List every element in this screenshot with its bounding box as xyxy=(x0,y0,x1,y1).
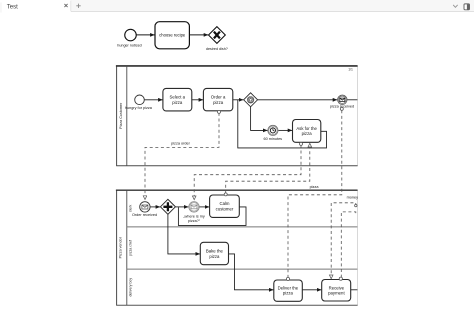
svg-text:pizza: pizza xyxy=(302,131,313,136)
svg-text:Calm: Calm xyxy=(219,201,229,206)
svg-text:Pizza Customer: Pizza Customer xyxy=(119,102,123,129)
svg-text:pizza: pizza xyxy=(172,100,183,105)
svg-text:Order received: Order received xyxy=(132,213,157,217)
svg-text:pizza: pizza xyxy=(213,100,224,105)
svg-text:choose recipe: choose recipe xyxy=(159,32,186,37)
svg-text:Test: Test xyxy=(7,5,18,11)
svg-text:hunger noticed: hunger noticed xyxy=(117,44,141,48)
svg-text:„where is my: „where is my xyxy=(183,215,205,219)
svg-text:pizza: pizza xyxy=(283,291,294,296)
svg-text:Ask for the: Ask for the xyxy=(296,126,317,131)
svg-text:customer: customer xyxy=(216,207,234,212)
svg-text:hungry for pizza: hungry for pizza xyxy=(125,106,153,110)
svg-text:Select a: Select a xyxy=(170,95,186,100)
svg-text:pizza?“: pizza?“ xyxy=(188,219,201,223)
svg-text:pizza: pizza xyxy=(209,254,220,259)
svg-text:pizza order: pizza order xyxy=(171,141,191,145)
svg-text:pizza chef: pizza chef xyxy=(128,240,132,256)
svg-text:payment: payment xyxy=(328,291,345,296)
svg-text:Order a: Order a xyxy=(211,95,226,100)
svg-text:delivery boy: delivery boy xyxy=(128,278,132,297)
svg-text:Pizza vendor: Pizza vendor xyxy=(119,236,123,258)
svg-text:Bake the: Bake the xyxy=(206,249,224,254)
svg-text:Deliver the: Deliver the xyxy=(278,285,299,290)
svg-text:desired dish?: desired dish? xyxy=(206,47,228,51)
svg-text:1/1: 1/1 xyxy=(348,68,353,72)
svg-text:Receive: Receive xyxy=(329,285,345,290)
svg-text:clerk: clerk xyxy=(128,204,132,212)
svg-text:money: money xyxy=(347,195,358,199)
svg-text:pizza: pizza xyxy=(310,185,320,189)
svg-text:60 minutes: 60 minutes xyxy=(264,137,283,141)
